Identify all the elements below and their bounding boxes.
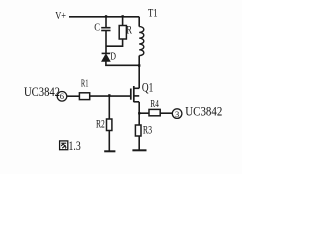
caption glyph 图 (drawn) (60, 141, 68, 150)
svg-text:R2: R2 (96, 119, 105, 131)
wire Q1 source down to R3 (138, 102, 140, 125)
junction source/R4 (138, 112, 140, 114)
capacitor C (101, 28, 110, 31)
junction clamp-return/drain (138, 64, 140, 66)
transistor Q1 (131, 86, 139, 102)
wire gate run from R1 to Q1 (90, 95, 131, 97)
svg-text:R: R (126, 25, 132, 37)
svg-text:R4: R4 (150, 98, 159, 110)
svg-text:1.3: 1.3 (69, 138, 81, 153)
wire R3 to ground (138, 136, 140, 150)
pin 6 bubble (57, 92, 67, 102)
resistor R4 (149, 109, 160, 115)
resistor R3 (135, 125, 141, 136)
wire T1 bottom to Q1 drain (138, 56, 140, 89)
wire capacitor branch stub (105, 17, 107, 28)
resistor R2 (107, 119, 112, 131)
svg-text:6: 6 (60, 91, 64, 101)
svg-text:UC3842: UC3842 (185, 104, 222, 119)
wire top rail V+ to T1 (69, 16, 139, 18)
resistor R (119, 26, 126, 40)
wire T1 top stub (138, 17, 140, 27)
wire R bottom to C branch (106, 39, 123, 46)
diode D (102, 53, 111, 61)
transformer T1 primary winding (139, 27, 144, 56)
wire R4 to pin 3 bubble (160, 112, 172, 114)
junction rail/C (105, 15, 107, 17)
ground under R3 (132, 149, 146, 151)
wire R2 to ground (108, 131, 110, 151)
wire resistor R stub (122, 17, 124, 26)
pin 3 bubble (172, 109, 182, 119)
junction gate/R2 (108, 94, 110, 96)
resistor R1 (79, 93, 89, 100)
svg-text:D: D (110, 51, 116, 63)
svg-text:R1: R1 (81, 79, 89, 90)
svg-text:3: 3 (175, 109, 179, 119)
svg-text:UC3842: UC3842 (24, 84, 60, 99)
svg-text:Q1: Q1 (142, 80, 153, 95)
wire diode to clamp return (106, 61, 139, 65)
svg-text:V+: V+ (55, 11, 66, 22)
junction rail/R (122, 15, 124, 17)
wire R4 branch (139, 112, 149, 114)
wire R2 branch stub (108, 96, 110, 119)
ground under R2 (104, 150, 115, 152)
svg-text:R3: R3 (143, 125, 152, 137)
wire capacitor bottom to diode (105, 31, 107, 53)
svg-text:C: C (94, 22, 100, 33)
wire pin6 bubble to R1 (67, 95, 80, 97)
svg-text:T1: T1 (148, 5, 158, 19)
